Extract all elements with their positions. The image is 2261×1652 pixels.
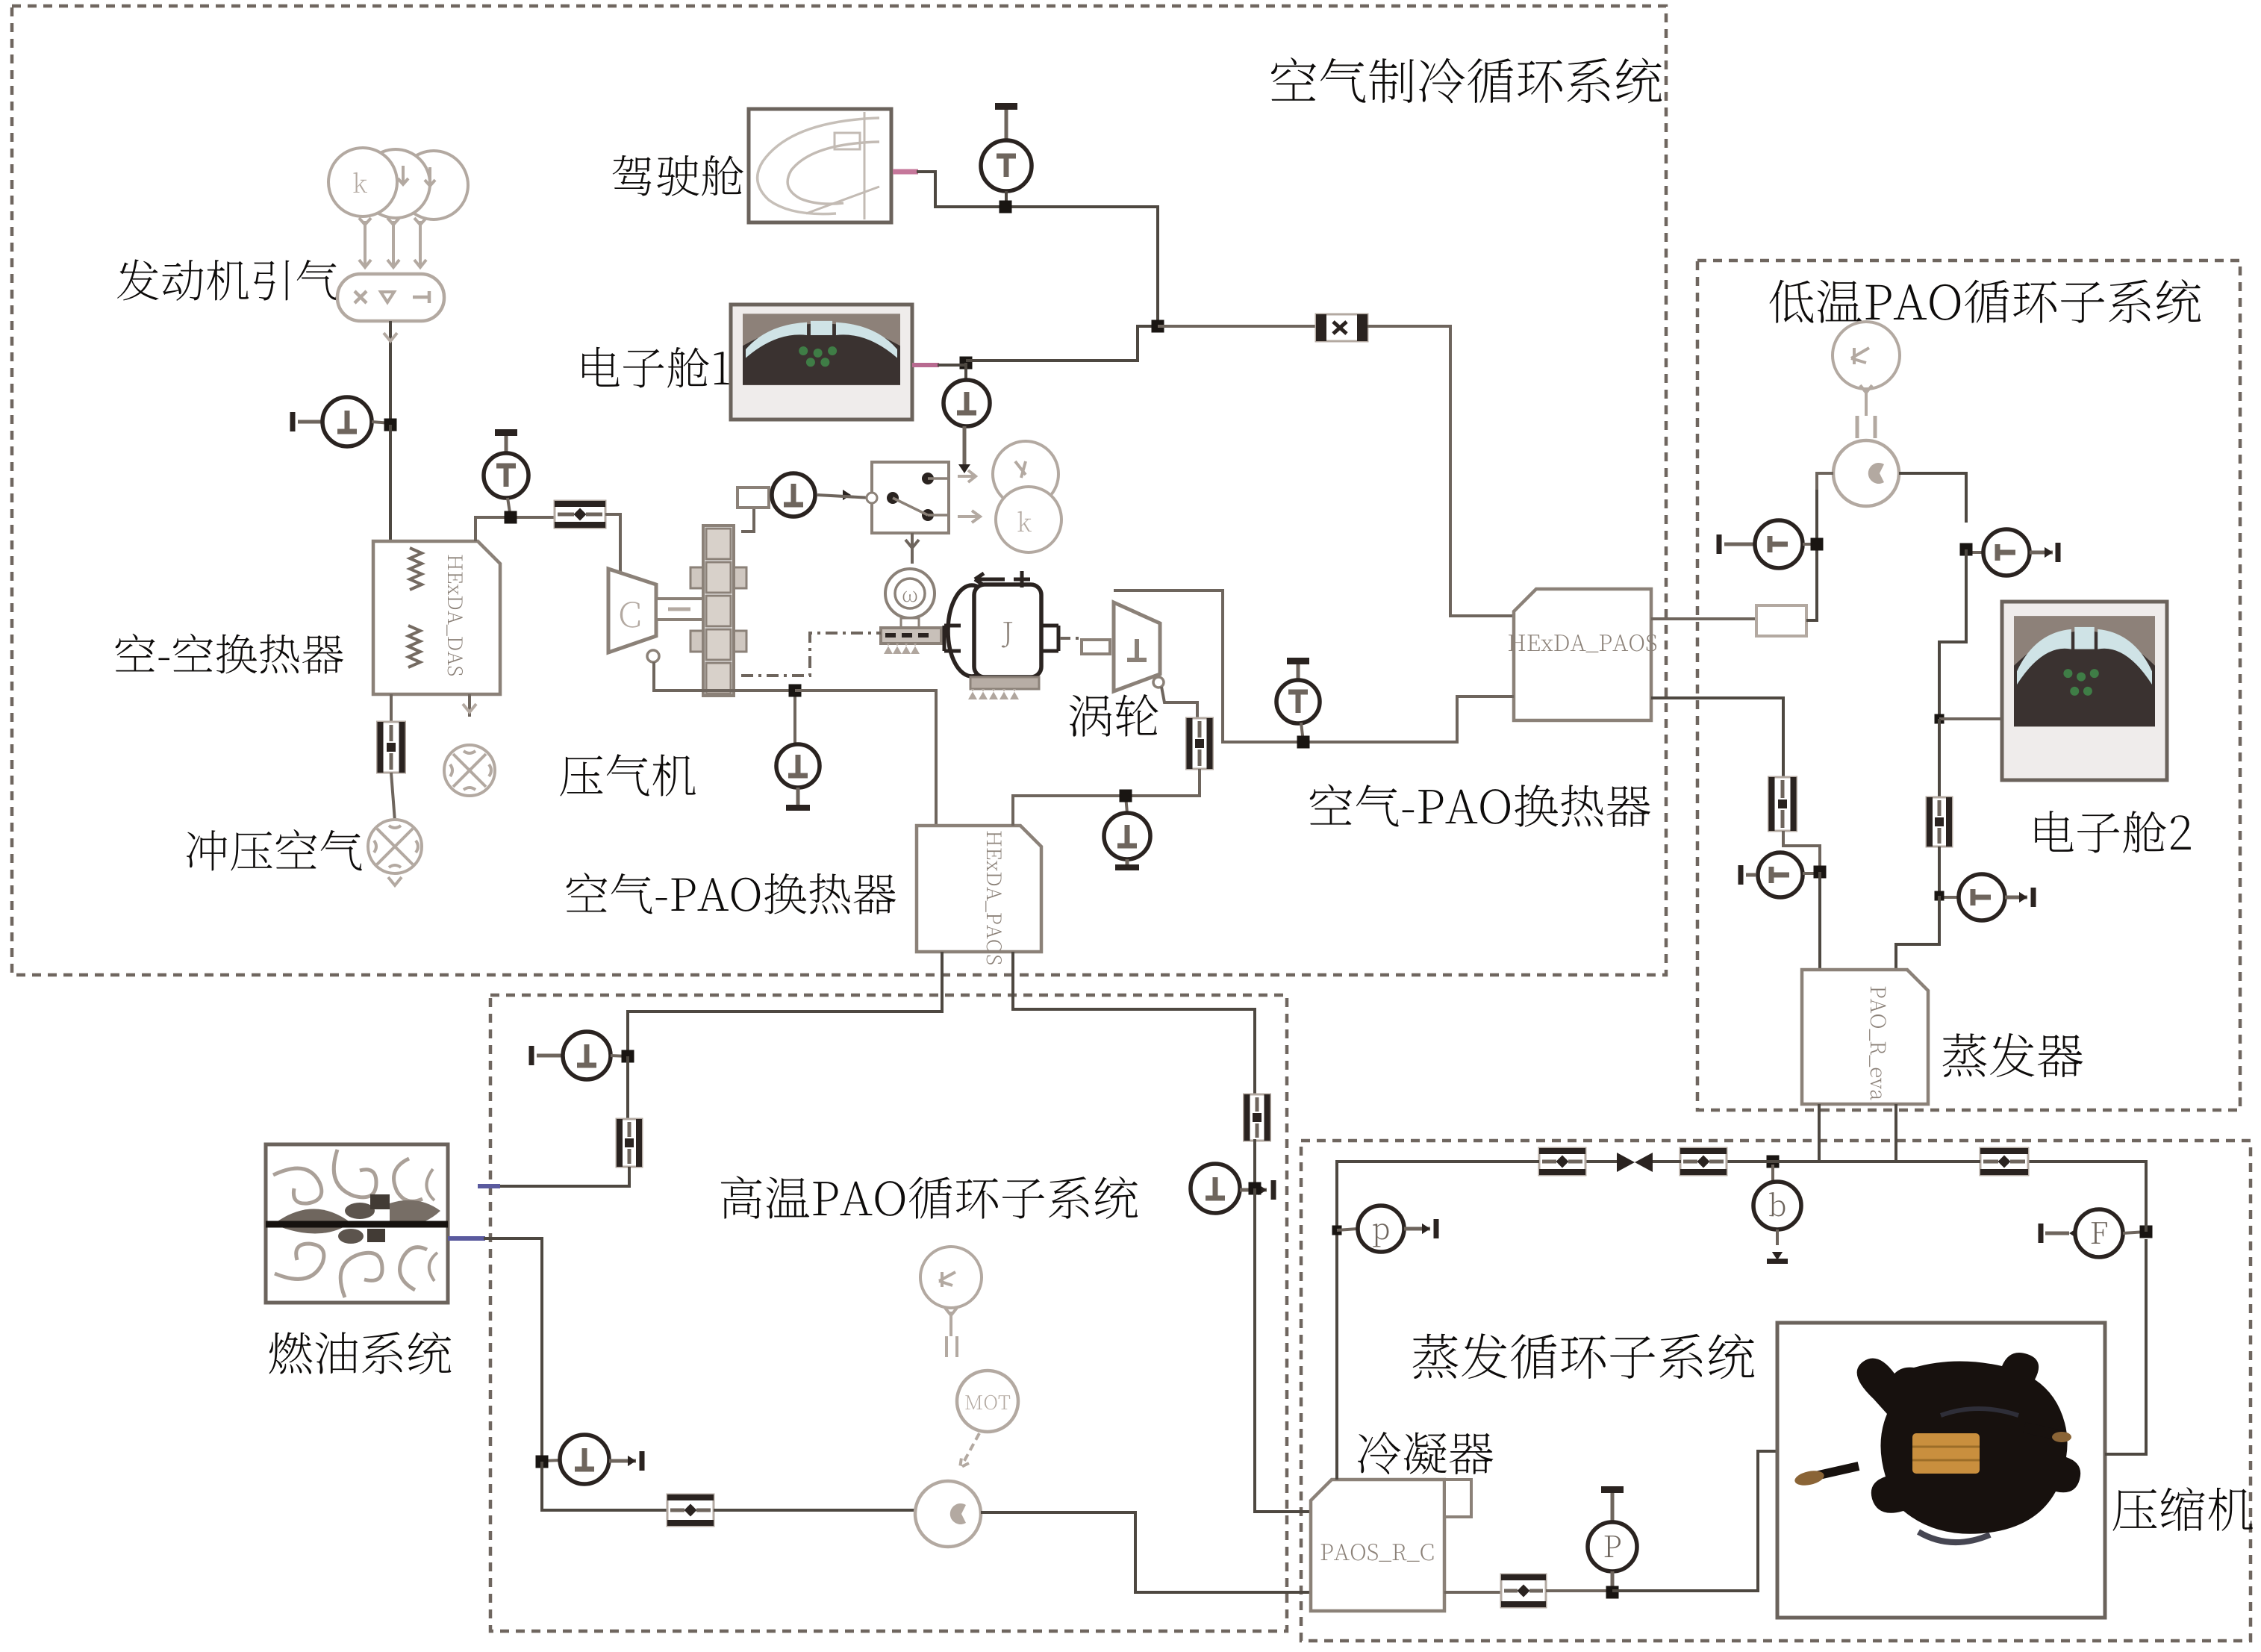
- heat exchanger HEx1 air-air HExDA_DAS block: [373, 541, 500, 694]
- label: turbine: [1070, 694, 1158, 737]
- node P: junction compressor suction: [1606, 1586, 1619, 1599]
- wire: node P to compressor box: [1612, 1451, 1779, 1591]
- wire: filter to HEx3 top-right: [1013, 769, 1200, 826]
- wire: resistor to pump left vertical: [1806, 490, 1817, 620]
- sensor T13: fuel loop supply temp: [529, 1032, 611, 1079]
- filter FL10: expansion inlet filter: [1680, 1148, 1727, 1175]
- wire: to electronics bay 2 feed: [1939, 549, 1966, 719]
- heat exchanger HEx3: air-PAO bottom HExDA_PAOS block: [917, 826, 1041, 964]
- wire: node A down to air-air HEx: [389, 425, 392, 541]
- node M: junction fuel supply: [611, 1050, 634, 1063]
- wire: bay1 pink port stub: [912, 363, 939, 367]
- sensor p1: condenser pressure: [1332, 1206, 1439, 1252]
- node L: junction at HEx3 air inlet: [1120, 790, 1132, 802]
- wire: turbine exhaust to filter: [1153, 677, 1197, 718]
- compressor C: air cycle machine compressor: [608, 569, 656, 652]
- label: cockpit: [613, 155, 743, 196]
- wire: top row right segment: [1896, 1160, 1980, 1163]
- label: condenser: [1358, 1432, 1493, 1474]
- dashed box: high-temperature PAO circulation subsystem boundary: [490, 995, 1287, 1631]
- sensor T14: pump suction temp: [542, 1435, 645, 1484]
- valve V1: cabin return shut-off: [1158, 314, 1367, 341]
- source K2: pump speed source: [1833, 322, 1900, 416]
- wire: stadium to node A: [384, 321, 397, 425]
- node F: junction pump suction: [1803, 538, 1824, 551]
- source K1: speed reference ellipses: [958, 441, 1061, 552]
- node R: junction at expansion feed: [1767, 1156, 1780, 1168]
- pump P2: high-temp PAO pump: [915, 1481, 981, 1547]
- label: electronics bay 1: [582, 347, 729, 388]
- motor M1: pump drive MOT: [946, 1336, 1018, 1468]
- condenser CN1: PAOS_R_C block: [1311, 1480, 1471, 1611]
- connector: muffler stub: [737, 487, 769, 508]
- node D: cockpit line junction: [999, 201, 1012, 213]
- source K3: pump speed source k: [920, 1247, 982, 1336]
- orifice O1: bleed line restrictor: [555, 501, 605, 528]
- sensor T9: evaporator PAO inlet temp: [1939, 874, 2036, 920]
- wire: riser to vapor top row: [2028, 1162, 2146, 1232]
- wire: node N to filter F4: [542, 1462, 667, 1510]
- wire: turbine top outlet to HEx2 bottom-left: [1114, 590, 1514, 742]
- wire: node I to evaporator top-right: [1896, 896, 1939, 970]
- node I: junction evaporator feed: [1935, 891, 1945, 901]
- node G: junction pump discharge: [1960, 543, 1973, 556]
- label: air-air heat exchanger: [116, 634, 343, 674]
- wire: filter to node O: [1253, 1139, 1256, 1188]
- turbine T: air cycle machine turbine: [1114, 602, 1160, 691]
- pump P1: low-temp PAO pump: [1833, 416, 1899, 506]
- wire: evaporator bottom ports to vapor loop: [1819, 1104, 1896, 1162]
- label: evaporator: [1943, 1033, 2083, 1077]
- wire: compressor box to right riser: [2105, 1239, 2146, 1454]
- compressor CP1: vapor cycle compressor photo box: [1777, 1323, 2105, 1618]
- wire: source drop lines with arrows: [359, 218, 426, 267]
- label: engine bleed air: [117, 259, 338, 301]
- node N: junction pump suction high-temp: [536, 1456, 549, 1468]
- label: ram air: [187, 829, 362, 870]
- wire: fuel box port2 blue stub: [448, 1236, 485, 1241]
- node C: combined cabin return junction: [1152, 320, 1164, 333]
- dashed box: vapor-cycle subsystem boundary: [1301, 1141, 2251, 1641]
- label: air-PAO heat exchanger right: [1310, 784, 1650, 827]
- label: compressor (vapor cycle): [2112, 1487, 2252, 1531]
- resistor RL1: PAO line lumped resistance: [1756, 605, 1806, 636]
- label: high-temp PAO circulation subsystem: [721, 1176, 1138, 1219]
- wire: compressor C outlet down-right: [647, 650, 795, 691]
- wire: top row to left corner: [1337, 1162, 1539, 1480]
- wire: condenser right to filter: [1444, 1591, 1501, 1594]
- wire: HEx top-right port up-over: [475, 517, 555, 541]
- node E: junction turbine outlet line: [1297, 736, 1310, 749]
- label: electronics bay 2: [2035, 811, 2191, 853]
- wire: bay1 to node C: [938, 326, 1158, 365]
- node K: junction C outlet: [789, 685, 802, 697]
- wire: valve to filter F5: [1585, 1160, 1617, 1163]
- wire: node O down to condenser left port: [1255, 1188, 1311, 1512]
- wire: pump right port down: [1899, 473, 1966, 523]
- node A: junction at bleed line: [372, 419, 397, 431]
- wire: dash-dot gearbox to omega rail: [741, 633, 881, 676]
- fan FN2: ram air fan 2: [444, 745, 495, 796]
- sensor T4: bay1 return sensor above switch: [944, 357, 990, 474]
- filter FL7: condenser PAO filter: [1244, 1094, 1270, 1141]
- sensor T5: cockpit outlet temperature: [981, 103, 1032, 207]
- wire: top row mid segment: [1819, 1160, 1896, 1163]
- node J: junction above evaporator: [1803, 866, 1827, 879]
- evaporator EV1: PAO_R_eva block: [1802, 970, 1928, 1104]
- label: compressor (air cycle): [560, 754, 696, 796]
- node O: junction condenser feed: [1249, 1182, 1262, 1195]
- block: electronics bay 1 cabin photo: [731, 305, 912, 420]
- sensor T11: HEx3 air inlet temp: [776, 691, 820, 811]
- sensor T10: evaporator PAO temp: [1738, 853, 1803, 897]
- wire: dash-dot motor to turbine shaft: [1060, 638, 1110, 654]
- wire: node K to HEx3 top-left: [795, 691, 936, 826]
- valve manifold: bleed control stadium block: [337, 274, 444, 321]
- filter FL11: condenser outlet filter: [1539, 1148, 1585, 1175]
- wire: node R to filter F6: [1727, 1160, 1819, 1163]
- wire: fuel port2 to pump line: [484, 1238, 542, 1456]
- label: fuel system: [269, 1332, 451, 1374]
- sensor P1: compressor suction pressure: [1588, 1486, 1637, 1591]
- sensor T3: gearbox line sensor: [772, 473, 872, 517]
- dashed box: low-temperature PAO circulation subsystem boundary: [1697, 261, 2240, 1110]
- wire: HEx3 bottom-right to condenser PAO in: [1013, 952, 1255, 1096]
- wire: orifice to compressor C inlet: [605, 514, 620, 575]
- fan FN1: ram air fan: [368, 820, 422, 873]
- wire: switch to omega coupler: [905, 533, 919, 564]
- wire: filter to pump P2: [714, 1509, 915, 1512]
- block: fuel system swirl box: [266, 1144, 448, 1303]
- wire: pump left port: [1817, 473, 1833, 490]
- label: vapor cycle subsystem: [1413, 1333, 1755, 1379]
- switch SW1: mode selector box: [867, 462, 949, 533]
- heat exchanger HEx2: air-PAO HExDA_PAOS right block: [1509, 589, 1656, 720]
- label: low-temp PAO circulation subsystem: [1769, 279, 2201, 323]
- wire: filter to fuel box port1: [499, 1167, 629, 1186]
- wire: node M to filter: [626, 1056, 629, 1120]
- sensor T15: condenser PAO inlet temp: [1191, 1164, 1276, 1213]
- wire: HEx2 right to resistor: [1651, 617, 1756, 620]
- filter FL8: refrigerant filter: [1501, 1574, 1546, 1607]
- wire: fuel box port1 blue stub: [478, 1184, 500, 1188]
- wire: filter to node J: [1783, 831, 1820, 866]
- node Q: junction compressor discharge: [2140, 1226, 2153, 1238]
- filter FL2: evap loop filter: [1927, 797, 1952, 847]
- shaft: compressor to gearbox: [656, 599, 703, 620]
- wire: filter to fan: [391, 773, 395, 821]
- label: air-PAO heat exchanger bottom: [567, 873, 896, 914]
- sensor T1: bleed temperature with left stop: [290, 397, 372, 446]
- sensor T2: compressor inlet temperature: [484, 429, 528, 517]
- block: electronics bay 2 cabin photo: [2002, 602, 2167, 780]
- filter FL3: PAO return filter: [1769, 777, 1797, 831]
- wire: gearbox tap to sensor chain: [741, 498, 769, 532]
- wire: HEx2 bottom-right to filter drop: [1651, 698, 1783, 777]
- sensor b1: evap pressure sensor: [1753, 1165, 1801, 1264]
- sensor F1: compressor discharge sensor: [2039, 1209, 2147, 1257]
- wire: HEx1 right outlet stub: [463, 694, 476, 717]
- wire: HEx1 left outlet down: [390, 694, 393, 722]
- wire: bay2 branch: [1939, 717, 2002, 720]
- sensor T6: turbine outlet temperature: [1276, 658, 1320, 742]
- gearbox: speed stack: [690, 526, 746, 696]
- sensor T12: HEx3 inlet temp: [1104, 796, 1150, 870]
- wire: filter to node I: [1938, 847, 1941, 896]
- filter FL6: pump inlet filter: [667, 1494, 714, 1526]
- block: cockpit cabin with nose sketch: [749, 109, 891, 222]
- label: air refrigeration cycle system: [1271, 57, 1662, 103]
- gauge W1: shaft speed omega: [881, 569, 941, 654]
- wire: valve to HEx2 top port: [1367, 326, 1514, 616]
- wire: HEx3 bottom-left to fuel system supply: [628, 952, 942, 1051]
- node B: junction below sensor T2: [505, 511, 517, 524]
- filter FL9: discharge filter: [1980, 1148, 2028, 1175]
- source: engine bleed air triple source circles: [328, 148, 468, 219]
- wire: node J to evaporator top-left: [1818, 872, 1821, 970]
- sensor T8: pump discharge temperature: [1966, 529, 2061, 576]
- wire: cockpit to node C: [917, 172, 1158, 321]
- filter FL1: ram air filter: [378, 722, 405, 773]
- dashed box: air refrigeration cycle system boundary: [12, 6, 1666, 975]
- filter FL5: fuel loop filter: [617, 1119, 642, 1167]
- wire: cockpit pink port stub: [893, 169, 918, 175]
- wire: fan outlet arrow: [388, 877, 402, 885]
- node H: bay2 tee junction: [1935, 714, 1945, 724]
- motor J1: load motor: [944, 571, 1058, 699]
- wire: filter to node P: [1546, 1589, 1612, 1592]
- sensor T7: PAO pump inlet temperature: [1717, 520, 1803, 568]
- valve VX1: expansion valve: [1617, 1153, 1681, 1172]
- wire: pump P2 discharge to condenser: [981, 1512, 1311, 1592]
- wire: bay2 drop to filter: [1938, 719, 1941, 798]
- filter FL4: turbine outlet filter: [1187, 718, 1213, 769]
